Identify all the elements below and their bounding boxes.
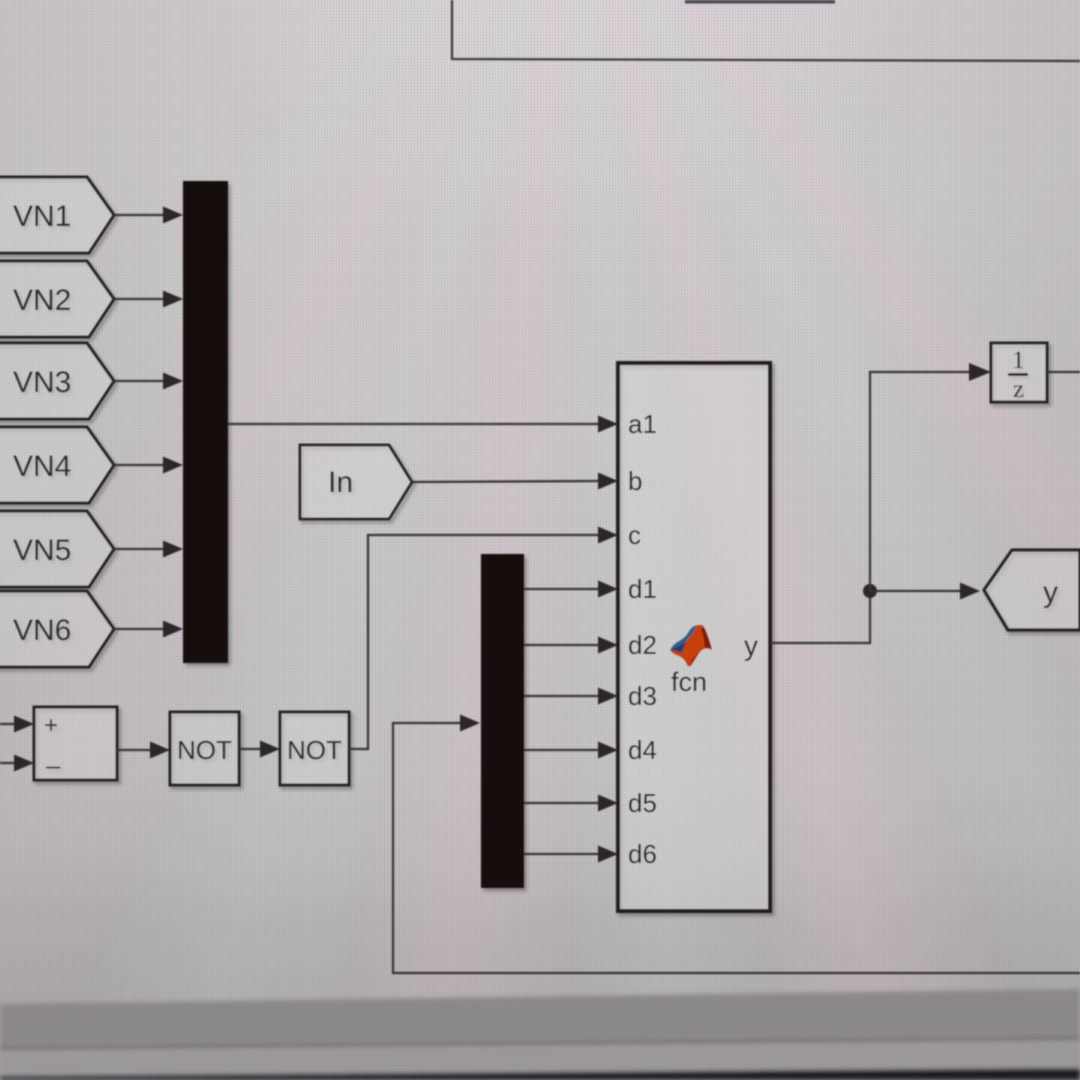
outport tag y [984,550,1080,630]
wire Demux1 to fcn port d6 [524,846,618,863]
wire fcn y to junction [770,591,870,643]
fcn port label d1 [628,574,657,604]
inport tag VN4 [0,427,114,503]
wire NOT2 to fcn port c [349,527,618,750]
svg-text:y: y [1043,576,1058,609]
wire VN4 to Mux [114,457,183,474]
wire input to sum - [0,755,34,772]
logic block NOT1 [170,712,239,785]
fcn port label d6 [628,839,657,869]
MATLAB logo [670,625,712,667]
inport tag VN2 [0,261,114,337]
wire VN6 to Mux [114,621,183,638]
svg-text:VN2: VN2 [13,284,71,317]
svg-text:NOT: NOT [177,735,232,765]
svg-text:fcn: fcn [671,667,707,697]
junction node [863,584,877,598]
wire input to sum + [0,716,34,733]
svg-text:a1: a1 [628,409,657,439]
fcn port label a1 [628,409,657,439]
subsystem border top-right [452,0,1080,61]
inport tag In [300,445,412,519]
wire NOT1 to NOT2 [239,741,280,758]
wire sum to NOT1 [117,742,170,759]
wire junction to outport tag y [870,583,980,600]
wire In to fcn port b [412,473,618,490]
wire VN1 to Mux [114,207,183,224]
inport tag VN6 [0,591,114,667]
demux Demux1 [481,554,524,888]
svg-text:VN5: VN5 [13,534,71,567]
fcn output port label y [744,630,758,661]
svg-text:d2: d2 [628,630,657,660]
inport tag VN5 [0,511,114,587]
svg-text:y: y [744,630,758,661]
svg-text:z: z [1013,376,1024,403]
fcn label [671,667,707,697]
svg-text:–: – [46,750,61,780]
wire Demux1 to fcn port d4 [524,742,618,759]
unit delay block 1/z [991,343,1047,403]
svg-text:NOT: NOT [287,735,342,765]
wire VN3 to Mux [114,373,183,390]
svg-text:1: 1 [1012,347,1025,374]
wire Demux1 to fcn port d5 [524,795,618,812]
wire junction to unit delay [870,363,991,591]
svg-text:VN6: VN6 [13,614,71,647]
wire unit delay output [1047,371,1080,373]
wire feedback to Demux1 input [393,715,1080,974]
MATLAB Function block fcn [618,363,770,911]
fcn port label d5 [628,788,657,818]
svg-text:VN3: VN3 [13,366,71,399]
fcn port label b [628,466,642,496]
inport tag VN1 [0,177,114,253]
dark bar at very top edge [685,0,835,4]
svg-text:d4: d4 [628,735,657,765]
mux Mux1 [183,181,228,663]
wire Demux1 to fcn port d1 [524,581,618,598]
wire Demux1 to fcn port d3 [524,688,618,705]
svg-text:d3: d3 [628,681,657,711]
logic block NOT2 [280,712,349,785]
svg-text:In: In [328,466,353,499]
fcn port label d3 [628,681,657,711]
svg-text:c: c [628,520,641,550]
svg-text:d5: d5 [628,788,657,818]
svg-text:+: + [44,712,58,739]
wire Demux1 to fcn port d2 [524,637,618,654]
sum block [34,707,117,780]
inport tag VN3 [0,343,114,419]
wire Mux1 to fcn port a1 [228,416,618,433]
svg-text:d1: d1 [628,574,657,604]
svg-text:VN1: VN1 [13,200,71,233]
svg-text:b: b [628,466,642,496]
bottom desk bands [0,989,1080,1080]
fcn port label d4 [628,735,657,765]
fcn port label c [628,520,641,550]
fcn port label d2 [628,630,657,660]
wire VN2 to Mux [114,291,183,308]
wire VN5 to Mux [114,541,183,558]
svg-text:d6: d6 [628,839,657,869]
svg-text:VN4: VN4 [13,450,71,483]
